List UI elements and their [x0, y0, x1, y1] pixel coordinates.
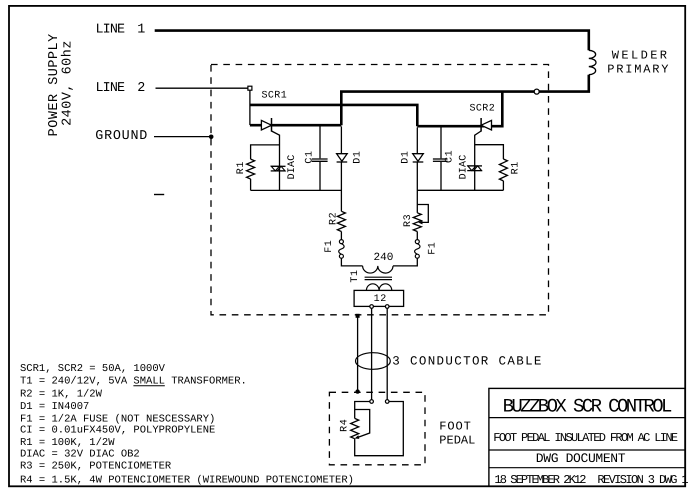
svg-text:C1: C1 — [444, 150, 455, 163]
wire LINE 2 — [156, 87, 248, 89]
svg-text:R3 = 250K, POTENCIOMETER: R3 = 250K, POTENCIOMETER — [20, 461, 172, 473]
node pedal terminals — [370, 400, 374, 404]
svg-text:C1: C1 — [304, 150, 315, 163]
junction at pedal enclosure — [355, 389, 359, 393]
resistor R2 — [337, 211, 345, 231]
svg-text:R2 = 1K, 1/2W: R2 = 1K, 1/2W — [20, 389, 103, 401]
diac (right) — [467, 165, 482, 167]
wire shield/ground lead — [356, 314, 360, 318]
svg-text:LINE: LINE — [96, 23, 126, 38]
wire ground — [154, 136, 211, 138]
svg-text:LINE: LINE — [96, 81, 126, 96]
svg-text:R4: R4 — [340, 419, 351, 432]
svg-text:DIAC: DIAC — [287, 155, 298, 180]
svg-text:240: 240 — [374, 252, 394, 264]
wire LINE 1 — [155, 31, 589, 51]
svg-text:F1: F1 — [427, 242, 438, 255]
wire R3 wiper jog — [417, 205, 428, 223]
title block — [489, 388, 685, 486]
svg-text:SCR1: SCR1 — [262, 91, 288, 102]
svg-text:R4 = 1.5K, 4W POTENCIOMETER (W: R4 = 1.5K, 4W POTENCIOMETER (WIREWOUND P… — [20, 474, 354, 486]
svg-text:DWG DOCUMENT: DWG DOCUMENT — [536, 451, 626, 466]
resistor R1 (right) — [475, 145, 504, 159]
wire R4 wiper — [355, 410, 370, 438]
svg-text:3 CONDUCTOR CABLE: 3 CONDUCTOR CABLE — [392, 354, 542, 368]
diac (left) — [271, 165, 286, 167]
dash mark — [154, 194, 164, 196]
svg-text:R1 = 100K, 1/2W: R1 = 100K, 1/2W — [20, 437, 115, 449]
junction ground to enclosure — [209, 135, 214, 140]
capacitor C1 (right) — [440, 128, 442, 159]
potentiometer R3 — [413, 213, 421, 232]
svg-text:D1: D1 — [400, 150, 411, 163]
svg-text:R1: R1 — [236, 161, 247, 174]
svg-text:R2: R2 — [328, 212, 339, 225]
wire LINE2 bus — [250, 105, 417, 126]
svg-text:12: 12 — [374, 294, 387, 305]
svg-text:T1: T1 — [350, 269, 361, 282]
svg-text:1: 1 — [137, 23, 145, 38]
fuse F1 (right) — [415, 240, 419, 244]
diode D1 (left) — [340, 127, 342, 154]
svg-text:F1: F1 — [324, 240, 335, 253]
svg-text:GROUND: GROUND — [95, 129, 148, 144]
foot pedal dashed box — [329, 392, 425, 465]
svg-text:18 SEPTEMBER 2K12: 18 SEPTEMBER 2K12 — [494, 473, 586, 487]
wire welder return — [539, 75, 589, 92]
svg-text:CI = 0.01uFX450V, POLYPROPYLEN: CI = 0.01uFX450V, POLYPROPYLENE — [20, 424, 215, 436]
node secondary terminals — [370, 305, 374, 309]
underline SMALL — [133, 385, 164, 387]
svg-text:BUZZBOX SCR CONTROL: BUZZBOX SCR CONTROL — [503, 395, 672, 417]
wire bottom rail (right) — [417, 189, 503, 191]
svg-text:REVISION 3 DWG 1: REVISION 3 DWG 1 — [597, 473, 688, 487]
wire bottom rail (left) — [251, 189, 342, 191]
svg-text:2: 2 — [137, 81, 145, 96]
wire SCR2 gate — [475, 131, 481, 190]
fuse F1 (left) — [339, 240, 343, 244]
wire secondary to pedal (right) — [386, 308, 388, 399]
enclosure dashed box — [211, 65, 549, 315]
node terminal square (LINE 2 entry) — [248, 86, 252, 90]
transformer T1 core — [365, 276, 392, 278]
wire pedal loop — [355, 402, 404, 456]
cable ellipse — [356, 353, 391, 370]
svg-text:DIAC: DIAC — [458, 155, 469, 180]
svg-text:FOOT: FOOT — [439, 419, 471, 433]
svg-text:WELDER: WELDER — [612, 49, 670, 63]
svg-text:240V, 60hz: 240V, 60hz — [61, 40, 76, 126]
svg-text:R1: R1 — [510, 161, 521, 174]
wire SCR1 anode-cathode line — [250, 124, 341, 127]
wire SCR1 gate — [272, 131, 280, 190]
wire SCR2 line — [417, 92, 502, 127]
svg-text:FOOT PEDAL INSULATED FROM AC L: FOOT PEDAL INSULATED FROM AC LINE — [493, 431, 678, 445]
transformer T1 secondary 12 — [366, 284, 391, 291]
svg-text:D1 = IN4007: D1 = IN4007 — [20, 401, 89, 413]
capacitor C1 (left) — [319, 127, 321, 159]
resistor R1 (left) — [251, 145, 280, 159]
svg-text:D1: D1 — [352, 150, 363, 163]
diode D1 (right) — [416, 128, 418, 154]
node terminal circle (welder lead) — [534, 89, 539, 94]
inductor welder primary coil — [589, 50, 596, 74]
potentiometer R4 — [351, 418, 359, 438]
svg-text:SCR2: SCR2 — [470, 104, 496, 115]
svg-text:PRIMARY: PRIMARY — [607, 63, 670, 77]
svg-text:R3: R3 — [403, 214, 414, 227]
wire secondary to pedal (mid) — [371, 308, 373, 399]
svg-text:DIAC = 32V DIAC OB2: DIAC = 32V DIAC OB2 — [20, 448, 140, 460]
svg-text:SCR1, SCR2 = 50A, 1000V: SCR1, SCR2 = 50A, 1000V — [20, 363, 166, 375]
svg-text:PEDAL: PEDAL — [439, 434, 475, 448]
